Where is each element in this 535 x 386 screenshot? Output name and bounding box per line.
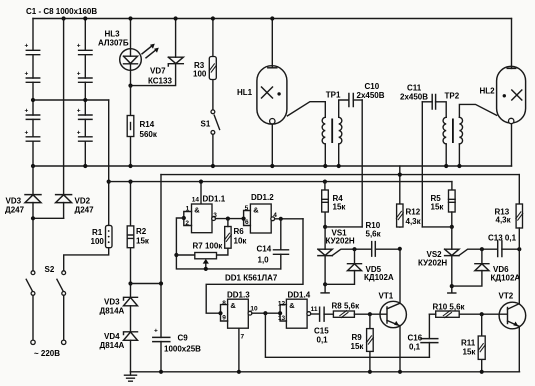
node C9 column tie [159,281,163,285]
svg-text:S2: S2 [45,265,55,274]
node rail3 pin14 [199,180,203,184]
capacitor C15 [314,307,329,344]
capacitor C13 on VS2 gate [488,234,519,257]
svg-text:2х450В: 2х450В [400,93,428,102]
svg-text:HL3: HL3 [105,30,121,39]
svg-text:0,1: 0,1 [409,343,421,352]
svg-text:C13 0,1: C13 0,1 [488,234,517,243]
node rail x33 [31,164,35,168]
resistor R2 [127,226,150,248]
wire R5 bottom to C11 column [422,226,452,228]
svg-text:8: 8 [222,300,226,307]
capacitor C9 [153,328,201,354]
capacitor C6 [77,71,92,101]
svg-text:15к: 15к [136,237,150,246]
resistor R14 [127,116,158,140]
svg-text:1000х25В: 1000х25В [164,345,201,354]
wire capacitor-bank mid tie y100 [33,99,109,101]
node VT2 base net / R11 [480,312,484,316]
wire HL1 to TP1 diagonal [287,102,325,118]
node top rail x175.6 [174,16,178,20]
node rail3 x130.5 [128,180,132,184]
svg-text:S1: S1 [201,120,211,129]
svg-text:5: 5 [245,205,249,212]
svg-text:DD1.1: DD1.1 [203,194,226,203]
wire R1 feed column x108.7 [108,100,110,225]
node frame-top x399.8 [398,173,402,177]
svg-text:+: + [77,71,81,78]
wire R4 bottom to C10 column [325,226,362,228]
node bottom rail C9 [159,370,163,374]
transformer TP2 [436,92,497,167]
node rail3 R4 [323,180,327,184]
svg-text:АЛ307Б: АЛ307Б [98,39,129,48]
svg-text:C16: C16 [408,334,423,343]
wire C11 drop column [421,102,423,227]
wire HL2 top drop [511,19,513,67]
svg-text:КД102А: КД102А [491,274,521,283]
switch S1 [201,110,220,166]
node DD1.2 input [242,217,246,221]
zener VD4 Д814А [100,332,138,350]
capacitor C11 [400,84,436,110]
resistor R8 [324,302,386,318]
wire VD2 to VD3 tie y218.3 [33,217,64,219]
svg-text:0,1: 0,1 [317,336,329,345]
svg-text:VT1: VT1 [379,292,394,301]
wire pin11 to C15 [311,313,319,315]
node VS2 gate / VD6 top [480,247,484,251]
zener VD7 КС133 [148,57,183,85]
wire main rail y166 [33,165,512,167]
svg-text:Д247: Д247 [75,206,95,215]
node mid tie x85.3 [83,98,87,102]
svg-text:R2: R2 [136,227,147,236]
wire DD1.1 input feedback [176,218,280,269]
LED HL3 АЛ307Б [98,30,159,86]
svg-text:HL1: HL1 [237,88,253,97]
resistor R11 [461,314,486,372]
svg-text:VT2: VT2 [499,292,514,301]
svg-text:VD3: VD3 [104,298,120,307]
node rail x85.3 [83,164,87,168]
svg-text:DD1.2: DD1.2 [251,193,274,202]
svg-text:КУ202Н: КУ202Н [326,237,355,246]
svg-text:HL2: HL2 [480,87,496,96]
svg-text:С9: С9 [178,334,189,343]
node R12 bottom / gate net [398,247,402,251]
svg-text:TP2: TP2 [445,92,460,101]
svg-text:R14: R14 [140,120,155,129]
svg-text:DD1 К561ЛА7: DD1 К561ЛА7 [225,274,278,283]
wire HL1 column [271,19,273,167]
capacitor on VS1 gate (R10 5,6к) [366,221,400,256]
resistor R13 [495,204,524,249]
node R1 column / rail3 [107,180,111,184]
svg-text:7: 7 [241,334,245,341]
wire R1 bottom loop to S2 [64,248,109,271]
svg-text:Д814А: Д814А [100,341,125,350]
node bottom rail VT1 emitter [398,370,402,374]
node LED/VD7 tie [128,84,132,88]
node R7 left tap [174,253,178,257]
node top rail x212.9 [211,16,215,20]
wire DD1.1 pin14 [200,182,202,204]
wire VT2 base net [459,313,506,315]
gate DD1.3 [221,291,259,341]
transformer TP1 [322,91,349,167]
svg-text:КУ202Н: КУ202Н [418,259,447,268]
node VS1 gate / VD5 top [352,247,356,251]
node VT1 base net [368,312,372,316]
svg-text:Д814А: Д814А [100,307,125,316]
svg-text:10к: 10к [234,237,248,246]
transistor VT2 [499,292,526,329]
svg-text:+: + [77,43,81,50]
wire R12 supply tie [399,166,401,204]
svg-text:15к: 15к [351,342,365,351]
potentiometer R7 [176,242,223,269]
svg-text:5,6к: 5,6к [366,230,382,239]
node rail x212.9 [211,164,215,168]
wire VD7 column [131,19,176,86]
svg-text:R9: R9 [352,333,363,342]
svg-text:+: + [77,130,81,137]
svg-text:+: + [25,43,29,50]
wire pin4 loop to DD1.3 [206,219,303,313]
wire VT1 emitter drop [399,326,401,372]
node DD1.4 input [278,311,282,315]
wire control frame top y174.6 [161,174,519,176]
capacitor C8 [77,130,92,167]
svg-text:11: 11 [311,306,318,313]
node pin10 branch [263,311,267,315]
wire DD1.3 out to DD1.4 [252,312,280,314]
node R7 wiper [204,267,208,271]
capacitor C4 [25,130,40,167]
svg-text:C11: C11 [407,84,422,93]
zener VD3 Д814А [100,297,138,315]
resistor R1 [91,225,113,247]
wire C10 drop column [361,100,363,227]
svg-text:10: 10 [250,306,258,313]
svg-text:&: & [253,206,259,215]
node rail x130.5 [128,164,132,168]
svg-text:2: 2 [185,220,189,227]
svg-text:+: + [77,108,81,115]
capacitor C16 [408,314,438,357]
resistor R4 [322,182,347,227]
svg-text:R12: R12 [406,208,421,217]
svg-text:Д247: Д247 [5,206,25,215]
wire VT2 emitter drop [518,326,520,371]
resistor R12 [396,204,422,227]
diode VD3 Д247 [5,195,41,215]
wire DD1.3 pin7 [238,328,240,372]
svg-text:13: 13 [278,315,286,322]
node top rail x130.5 [128,16,132,20]
svg-text:560к: 560к [140,130,158,139]
wire R2 to C9 tie y283.5 [131,283,162,285]
wire R3 column [212,19,214,110]
svg-text:100: 100 [91,237,105,246]
svg-text:C10: C10 [365,82,380,91]
node mid tie x33 [31,98,35,102]
svg-text:4,3к: 4,3к [496,216,512,225]
node R2/C9 tie x130.5 [128,281,132,285]
resistor R3 [193,57,217,80]
thyristor VS2 КУ202Н [418,227,497,286]
svg-text:C15: C15 [314,327,329,336]
node VS1 cathode / VD5 [323,282,327,286]
svg-text:VD4: VD4 [104,332,120,341]
capacitor C14 [257,219,289,269]
svg-text:100: 100 [193,70,207,79]
diode VD5 КД102А [325,249,394,284]
svg-text:2х450В: 2х450В [357,91,385,100]
resistor R5 [431,190,456,227]
wire DD1.1 out to DD1.2 in [216,218,244,220]
svg-text:R6: R6 [234,227,245,236]
diode VD2 Д247 [56,195,94,215]
lamp HL2 [480,66,526,123]
svg-text:&: & [194,206,200,215]
node tie x33 [31,216,35,220]
svg-text:DD1.3: DD1.3 [227,291,250,300]
wire HL2 bottom drop [511,124,513,166]
node rail TP2 right [457,164,461,168]
svg-text:15к: 15к [463,348,477,357]
node top rail x63.6 [62,16,66,20]
svg-text:C14: C14 [257,245,272,254]
svg-text:1,0: 1,0 [258,256,270,265]
svg-text:&: & [230,301,236,310]
wire frame right column top [518,175,520,204]
switch S2 [26,265,66,344]
node C14 top [279,217,283,221]
svg-text:VD3: VD3 [6,197,22,206]
capacitor C10 [349,82,385,107]
diode VD6 КД102А [452,249,521,286]
wire bottom rail y371.8 [131,371,520,373]
node DD1.3 input [218,311,222,315]
node rail x272.3 [270,164,274,168]
node bottom rail pin7 [237,370,241,374]
svg-text:12: 12 [278,300,286,307]
wire R2 column [130,182,132,284]
svg-text:R10 5,6к: R10 5,6к [433,303,466,312]
svg-text:~ 220В: ~ 220В [34,349,60,358]
node VS1 anode [323,225,327,229]
node DD1.1 input [182,216,186,220]
node R13 bottom / C13 right [517,247,521,251]
gate DD1.2 [244,193,278,233]
svg-text:КС133: КС133 [148,77,172,86]
wire DD1.2 out pin4 [275,218,303,220]
wire R13/C13 to VT2 collector [518,249,520,303]
wire rail3 y181.6 [109,181,452,183]
wire R5 drop from rail3 [451,182,453,190]
node bottom rail R11 [480,370,484,374]
capacitor C3 [25,100,40,137]
resistor R10 (VT2 base) [429,303,465,318]
svg-text:6: 6 [245,219,249,226]
wire LED column top [130,19,132,49]
svg-text:+: + [25,71,29,78]
capacitor C2 [25,71,40,101]
svg-text:R11: R11 [461,339,476,348]
wire pin10 branch to C16 rail [265,313,429,357]
capacitor C1 [25,19,40,79]
ground [125,372,137,381]
transistor VT1 [379,292,407,328]
svg-text:R8 5,6к: R8 5,6к [332,302,361,311]
svg-text:DD1.4: DD1.4 [288,291,311,300]
wire top rail [33,18,512,20]
capacitor C7 [77,100,92,137]
wire R14 column [130,86,132,166]
svg-text:1: 1 [186,206,190,213]
wire zener column to bottom rail [130,284,132,372]
node rail TP2 left [444,164,448,168]
wire VD3 column [32,166,34,271]
svg-text:15к: 15к [431,203,445,212]
svg-text:+: + [25,130,29,137]
resistor R9 [351,314,374,372]
lamp HL1 [237,66,287,124]
gate DD1.4 [278,291,318,329]
svg-text:+: + [154,328,158,335]
svg-text:VD7: VD7 [150,67,166,76]
node VS2 cathode / VD6 [450,284,454,288]
svg-text:+: + [25,108,29,115]
node top rail x85.3 [83,16,87,20]
capacitor C5 [77,19,92,79]
gate DD1.1 [184,194,226,232]
node rail TP1 right [337,164,341,168]
svg-text:КД102А: КД102А [364,273,394,282]
svg-text:4,3к: 4,3к [406,217,422,226]
node VS2 anode [450,225,454,229]
resistor R6 [217,219,248,255]
wire VS2 cathode terminator [451,286,453,292]
node bottom rail R9 [368,370,372,374]
wire VT1 collector rise / R12 column [399,204,401,303]
thyristor VS1 КУ202Н [318,227,371,284]
wire VS1 cathode terminator [324,284,326,292]
wire frame left column x161 [160,175,162,372]
svg-text:&: & [289,301,295,310]
svg-text:R7 100к: R7 100к [193,242,224,251]
node rail TP1 left [323,164,327,168]
svg-text:R1: R1 [92,228,103,237]
svg-text:С1 - С8 1000х160В: С1 - С8 1000х160В [26,7,97,16]
svg-text:14: 14 [192,196,200,203]
node top rail x272.3 [270,16,274,20]
wire VD2 column [63,19,65,219]
svg-text:VD2: VD2 [75,197,91,206]
svg-text:TP1: TP1 [326,91,341,100]
svg-text:9: 9 [222,315,226,322]
node R6 top [226,217,230,221]
svg-text:15к: 15к [333,203,347,212]
